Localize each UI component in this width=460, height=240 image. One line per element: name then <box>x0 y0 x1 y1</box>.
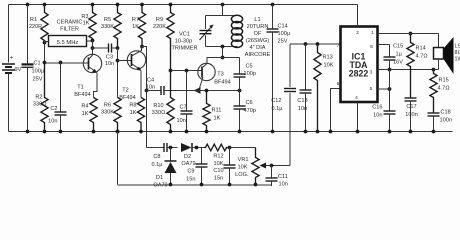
svg-text:VR1: VR1 <box>238 157 249 163</box>
svg-text:OF: OF <box>254 31 262 37</box>
resistor R12 10K <box>205 144 230 151</box>
capacitor C1 100u 25V <box>26 3 30 7</box>
svg-text:R14: R14 <box>416 46 426 52</box>
wire base wire T3 <box>171 70 203 72</box>
capacitor C13 10n <box>305 44 307 90</box>
svg-text:7: 7 <box>337 43 340 49</box>
wire pin5 tie <box>378 88 390 90</box>
svg-text:15n: 15n <box>214 176 223 182</box>
svg-text:C3: C3 <box>106 55 113 61</box>
svg-text:6: 6 <box>337 81 340 87</box>
svg-text:R2: R2 <box>35 95 42 101</box>
svg-text:8: 8 <box>370 44 373 50</box>
svg-text:25V: 25V <box>278 39 288 45</box>
svg-text:10n: 10n <box>373 113 382 119</box>
wire tank top stub <box>221 3 225 7</box>
svg-text:330K: 330K <box>101 110 114 116</box>
svg-text:C10: C10 <box>213 168 223 174</box>
svg-text:10K: 10K <box>214 161 224 167</box>
svg-text:R5: R5 <box>104 17 111 23</box>
svg-text:3: 3 <box>370 70 373 76</box>
resistor R7 1K <box>140 3 144 7</box>
svg-text:1µ: 1µ <box>396 52 403 58</box>
wire battery negative lead <box>8 74 10 132</box>
svg-text:AIRCORE: AIRCORE <box>245 52 271 58</box>
capacitor C9 15n <box>201 148 203 165</box>
svg-text:10-30p: 10-30p <box>175 39 192 45</box>
svg-text:C2: C2 <box>50 106 57 112</box>
svg-text:15n: 15n <box>186 177 195 183</box>
capacitor C3 10n <box>93 47 109 49</box>
capacitor C2 10n <box>59 61 63 65</box>
svg-text:2: 2 <box>356 30 359 36</box>
capacitor C7 10n <box>186 71 188 112</box>
svg-text:5: 5 <box>370 86 373 92</box>
svg-text:220K: 220K <box>153 24 166 30</box>
svg-text:1K: 1K <box>83 21 90 27</box>
svg-text:330Ω: 330Ω <box>152 110 166 116</box>
svg-text:C6: C6 <box>246 100 253 106</box>
svg-text:LOG.: LOG. <box>235 172 249 178</box>
svg-text:C4: C4 <box>147 78 154 84</box>
resistor R8 1K <box>137 98 144 132</box>
svg-text:5.5 MHz: 5.5 MHz <box>57 40 79 46</box>
svg-text:C12: C12 <box>271 98 281 104</box>
wire +9V top rail <box>9 4 358 6</box>
svg-text:1K: 1K <box>214 116 221 122</box>
svg-text:T2: T2 <box>122 88 129 94</box>
svg-text:1K: 1K <box>130 110 137 116</box>
svg-text:C8: C8 <box>153 154 160 160</box>
svg-text:BF494: BF494 <box>119 95 135 101</box>
svg-text:R12: R12 <box>213 154 223 160</box>
svg-text:10n: 10n <box>177 118 186 124</box>
wire tank top <box>206 15 238 17</box>
svg-text:C18: C18 <box>441 110 451 116</box>
svg-text:10n: 10n <box>279 182 288 188</box>
svg-text:25V: 25V <box>33 77 43 83</box>
svg-text:8Ω: 8Ω <box>455 50 460 56</box>
trimmer VC1 10-30p <box>205 16 207 30</box>
svg-text:0.1µ: 0.1µ <box>152 162 164 168</box>
svg-text:R8: R8 <box>129 103 136 109</box>
svg-text:4: 4 <box>355 95 358 101</box>
svg-text:330K: 330K <box>101 24 114 30</box>
svg-text:FILTER: FILTER <box>60 27 79 33</box>
svg-text:1K: 1K <box>132 24 139 30</box>
resistor R15 4.7ohm <box>430 70 437 113</box>
wire pin1 output line <box>409 32 413 36</box>
wire pin6 to ground <box>331 89 341 132</box>
svg-text:4" DIA: 4" DIA <box>250 45 266 51</box>
svg-text:16V: 16V <box>393 60 403 66</box>
capacitor C5 100p <box>239 58 241 75</box>
svg-text:100p: 100p <box>244 71 256 77</box>
wire detector line <box>147 147 163 149</box>
svg-text:OA79: OA79 <box>153 182 167 188</box>
svg-text:D2: D2 <box>184 154 191 160</box>
capacitor C14 100u 25V <box>271 3 275 7</box>
resistor R3 1K <box>91 3 95 7</box>
loudspeaker LS 8ohm 1W <box>378 33 439 35</box>
transistor T1 BF494 <box>83 54 101 72</box>
svg-text:10n: 10n <box>146 85 155 91</box>
diode D1 OA79 <box>170 148 172 161</box>
capacitor C4 10n <box>147 90 162 92</box>
svg-text:R3: R3 <box>81 14 88 20</box>
wire collector node to C4 <box>142 47 147 91</box>
svg-text:R11: R11 <box>212 108 222 114</box>
svg-text:20TURN: 20TURN <box>247 24 269 30</box>
svg-text:C15: C15 <box>393 44 403 50</box>
svg-text:4.7Ω: 4.7Ω <box>438 86 451 92</box>
inductor L1 20 turns <box>206 46 238 48</box>
wire pin2 Vcc stub <box>357 5 359 27</box>
svg-text:(26SWG): (26SWG) <box>246 38 269 44</box>
svg-text:T3: T3 <box>217 72 224 78</box>
resistor R2 330ohm <box>41 63 48 132</box>
svg-text:C13: C13 <box>297 98 307 104</box>
wire R3 to collector node <box>92 41 94 49</box>
resistor R4 1K <box>90 98 97 132</box>
wire R1 to base node <box>44 43 46 63</box>
wire detector drop <box>146 91 148 148</box>
svg-text:T1: T1 <box>77 85 84 91</box>
capacitor C10 15n <box>228 146 232 150</box>
svg-text:10K: 10K <box>324 63 334 69</box>
svg-text:330Ω: 330Ω <box>33 102 47 108</box>
op-amp IC1 TDA2822 <box>341 27 378 103</box>
svg-text:LS: LS <box>455 44 460 50</box>
svg-text:100n: 100n <box>405 112 417 118</box>
svg-text:C17: C17 <box>406 104 416 110</box>
capacitor C11 10n <box>271 166 273 179</box>
svg-text:100n: 100n <box>440 118 452 124</box>
svg-text:220R: 220R <box>29 24 42 30</box>
transistor T2 BF494 <box>127 51 145 69</box>
svg-text:L1: L1 <box>254 17 260 23</box>
svg-text:R7: R7 <box>132 17 139 23</box>
svg-text:C16: C16 <box>372 105 382 111</box>
svg-text:C1: C1 <box>34 61 41 67</box>
svg-text:R13: R13 <box>323 55 333 61</box>
svg-text:+: + <box>10 56 14 62</box>
svg-text:TRIMMER: TRIMMER <box>171 46 197 52</box>
svg-text:C7: C7 <box>180 105 187 111</box>
wire T2 base node <box>117 48 119 98</box>
svg-text:4.7Ω: 4.7Ω <box>416 54 429 60</box>
svg-text:0.1µ: 0.1µ <box>272 106 284 112</box>
svg-text:9V: 9V <box>15 67 22 73</box>
wire collector line T3 <box>207 57 240 59</box>
resistor R6 330K <box>114 98 121 132</box>
svg-text:R4: R4 <box>81 104 88 110</box>
svg-text:100µ: 100µ <box>278 31 291 37</box>
svg-text:1W: 1W <box>455 57 460 63</box>
svg-text:1K: 1K <box>82 111 89 117</box>
wire pin4 ground stub <box>357 102 359 132</box>
wire tank bottom stub <box>221 45 225 49</box>
svg-text:10n: 10n <box>298 106 307 112</box>
svg-text:R9: R9 <box>156 17 163 23</box>
wire pin7 input line <box>290 43 341 45</box>
svg-text:R15: R15 <box>439 78 449 84</box>
svg-text:R10: R10 <box>153 103 163 109</box>
wire base wire T2 <box>118 60 132 62</box>
svg-text:D1: D1 <box>156 175 163 181</box>
wire bottom rail <box>118 184 272 186</box>
capacitor C12 0.1u input coupling <box>289 93 291 166</box>
capacitor C18 100n <box>433 112 435 115</box>
svg-text:10K: 10K <box>238 165 248 171</box>
capacitor C16 10n <box>389 70 391 112</box>
svg-text:VC1: VC1 <box>179 32 190 38</box>
wire pin3 output line <box>378 69 434 71</box>
wire pin8 feedback <box>378 44 390 46</box>
wire R12 to VR1 <box>230 147 256 149</box>
svg-text:2822: 2822 <box>349 69 369 79</box>
diode D2 OA79 <box>181 143 192 152</box>
svg-text:C9: C9 <box>187 169 194 175</box>
svg-text:BF494: BF494 <box>74 92 90 98</box>
wire battery positive lead <box>8 5 10 63</box>
capacitor C17 100n <box>410 97 412 100</box>
svg-text:BF494: BF494 <box>214 80 230 86</box>
resistor R11 1K <box>203 91 210 132</box>
svg-text:10n: 10n <box>105 61 114 67</box>
svg-text:100µ: 100µ <box>32 69 45 75</box>
resistor R13 10K <box>314 44 321 132</box>
svg-text:470p: 470p <box>244 108 256 114</box>
wire gnd to bottom rail <box>116 130 120 134</box>
svg-text:R1: R1 <box>30 17 37 23</box>
transistor T3 BF494 <box>198 63 215 80</box>
svg-text:CERAMIC: CERAMIC <box>57 20 83 26</box>
capacitor C8 0.1u <box>147 147 165 149</box>
wire ground rail <box>9 131 453 133</box>
capacitor C6 470p <box>239 91 241 107</box>
svg-text:C5: C5 <box>246 64 253 70</box>
svg-text:OA79: OA79 <box>181 161 195 167</box>
resistor R14 4.7ohm <box>407 34 414 98</box>
potentiometer VR1 10K LOG <box>252 148 259 185</box>
svg-text:C11: C11 <box>278 174 288 180</box>
svg-text:C14: C14 <box>278 24 288 30</box>
svg-text:10n: 10n <box>48 119 57 125</box>
battery BATT 9V <box>2 63 15 65</box>
resistor R9 220K <box>169 3 173 7</box>
resistor R10 330ohm <box>167 71 174 132</box>
capacitor C15 1u 16V <box>389 45 391 58</box>
wire emitter line T3 <box>193 90 240 92</box>
wire base wire T1 <box>45 62 89 64</box>
resistor R5 330K <box>116 3 120 7</box>
svg-text:1: 1 <box>371 30 374 36</box>
resistor R1 220R <box>43 3 47 7</box>
svg-text:R6: R6 <box>104 103 111 109</box>
